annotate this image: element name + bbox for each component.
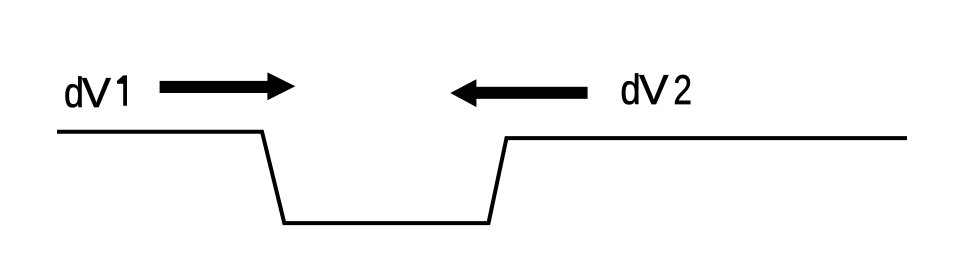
svg-text:d: d — [620, 66, 640, 113]
arrow dV1 (pointing right) — [160, 72, 296, 100]
arrow dV2 (pointing left) — [450, 79, 587, 107]
svg-text:V: V — [82, 69, 111, 116]
label dV2 — [620, 66, 692, 113]
svg-text:V: V — [639, 66, 668, 113]
signal waveform with voltage droop notch — [57, 132, 907, 223]
svg-text:2: 2 — [673, 66, 692, 113]
label dV1 — [64, 69, 127, 116]
